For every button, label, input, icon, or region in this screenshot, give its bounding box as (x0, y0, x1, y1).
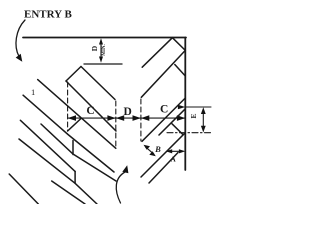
dimension E top extension (186, 106, 211, 108)
right rib edge 4 (159, 109, 185, 135)
extension line left dashed (67, 82, 69, 131)
svg-text:B: B (154, 144, 161, 154)
left rib bottom edge (66, 81, 116, 131)
right rib edge 1 (142, 38, 172, 67)
entry flow curved arrow (16, 20, 25, 57)
right rib edge 2 (141, 50, 185, 97)
rib 2 edge (23, 95, 114, 172)
svg-text:C: C (86, 105, 94, 117)
right rib cut 1 (172, 38, 185, 51)
svg-text:D: D (90, 45, 99, 51)
right rib edge 6 (149, 153, 178, 184)
right rib edge 5 (141, 133, 185, 177)
dimension A arrow (168, 150, 183, 152)
extension line right dashed (140, 99, 142, 141)
right rib cut 3 (172, 124, 183, 135)
svg-text:E: E (189, 113, 198, 118)
svg-text:MIN.: MIN. (102, 43, 107, 55)
svg-text:ENTRY B: ENTRY B (24, 9, 72, 21)
dimension line C D C (68, 117, 186, 119)
dimension E arrow (202, 110, 204, 130)
dimension D MIN arrow (100, 41, 102, 60)
rib 2 lower edge (41, 124, 116, 181)
svg-text:1: 1 (31, 87, 35, 97)
right rib cut 2 (175, 65, 186, 77)
extension line mid dashed (115, 101, 117, 148)
rib 5 edge (52, 181, 85, 204)
right wall line (184, 38, 186, 171)
svg-text:C: C (160, 104, 168, 116)
svg-text:A: A (171, 155, 176, 163)
left rib top edge (81, 67, 115, 100)
D min reference line (84, 63, 122, 65)
rib 1 edge (38, 80, 116, 149)
right rib edge 3 (142, 98, 185, 141)
exit flow curved arrow (116, 172, 125, 203)
rib 4 edge (9, 174, 38, 204)
dimension B arrow (146, 147, 154, 154)
left rib end cut (66, 67, 81, 82)
rib step cut (72, 141, 74, 155)
rib step rung (74, 171, 76, 183)
rib 3 lower edge (19, 139, 97, 204)
dimension E bottom extension dash-dot (167, 132, 211, 134)
rib 3 edge (20, 120, 75, 171)
svg-text:D: D (124, 106, 132, 118)
top wall line (23, 37, 186, 39)
step cut (68, 119, 81, 132)
